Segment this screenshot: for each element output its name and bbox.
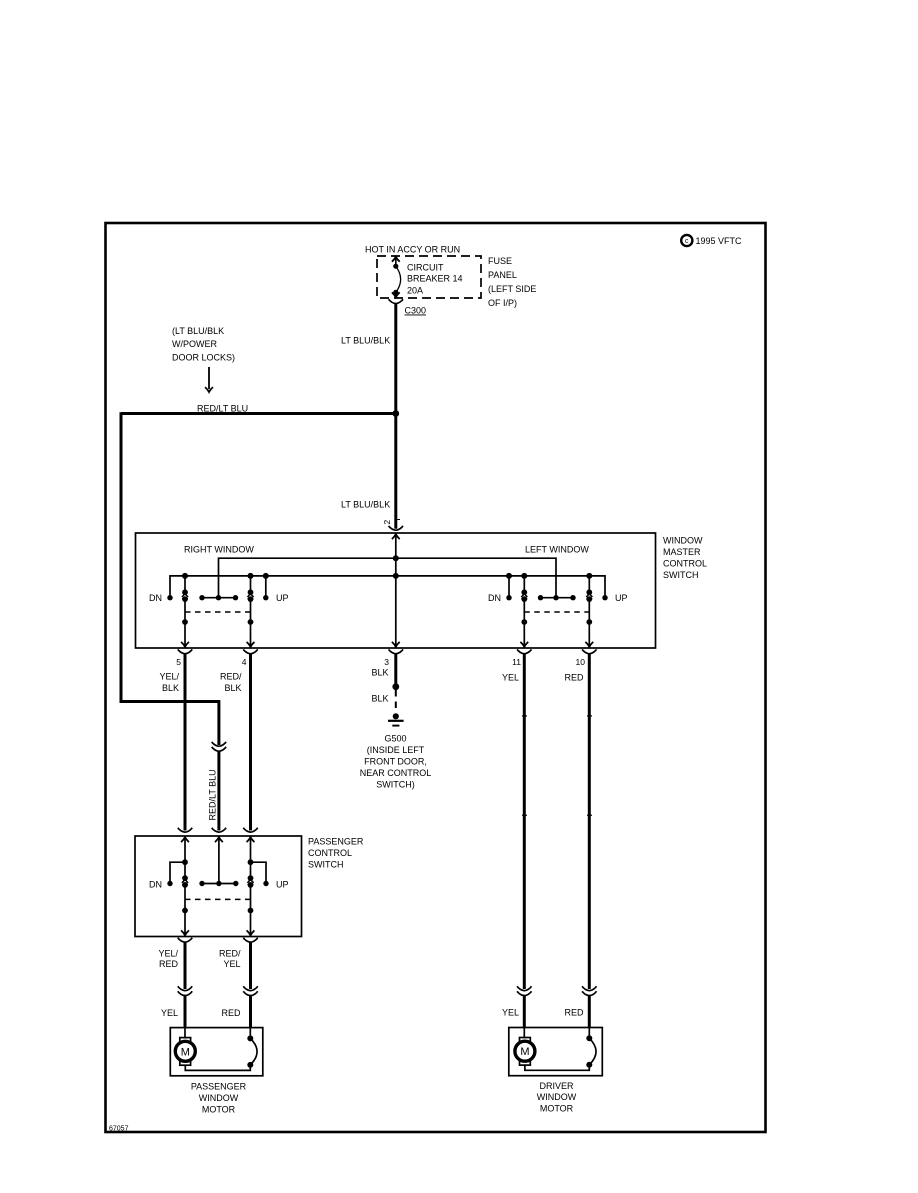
connector C300 bracket <box>389 299 403 303</box>
ground G500 <box>388 713 404 725</box>
svg-text:M: M <box>181 1046 190 1058</box>
svg-text:c: c <box>685 238 689 245</box>
wire YEL to driver motor <box>523 995 526 1028</box>
svg-text:PANEL: PANEL <box>488 270 517 280</box>
wire BLK <box>394 654 397 687</box>
svg-text:W/POWER: W/POWER <box>172 339 217 349</box>
left window UP contact <box>602 595 607 600</box>
svg-text:YEL: YEL <box>161 1008 178 1018</box>
svg-text:BLK: BLK <box>224 683 241 693</box>
svg-text:FUSE: FUSE <box>488 256 512 266</box>
svg-text:4: 4 <box>242 657 247 667</box>
svg-text:YEL: YEL <box>223 959 240 969</box>
right window wiper arm pin5 <box>181 573 189 647</box>
wire YEL driver <box>523 654 526 989</box>
svg-text:HOT IN ACCY OR RUN: HOT IN ACCY OR RUN <box>365 245 460 255</box>
entry arrows <box>181 837 189 842</box>
svg-text:67057: 67057 <box>109 1126 129 1133</box>
inline connector <box>517 986 531 995</box>
svg-text:DN: DN <box>149 880 162 890</box>
svg-text:(LEFT SIDE: (LEFT SIDE <box>488 284 536 294</box>
inline connector <box>582 986 596 995</box>
svg-text:YEL: YEL <box>502 673 519 683</box>
left window DN contact <box>508 576 510 598</box>
svg-text:SWITCH: SWITCH <box>663 570 699 580</box>
svg-text:DRIVER: DRIVER <box>539 1081 574 1091</box>
wire RED/LT BLU branch <box>121 412 396 415</box>
motor brushes passenger <box>247 1028 257 1068</box>
svg-text:WINDOW: WINDOW <box>663 536 703 546</box>
svg-text:YEL/: YEL/ <box>158 949 178 959</box>
connector bracket pin 2 <box>389 526 403 530</box>
svg-text:RED: RED <box>564 673 584 683</box>
right window wiper arm pin4 <box>247 573 255 647</box>
svg-text:CIRCUIT: CIRCUIT <box>407 262 444 272</box>
master feed exit arrow pin3 <box>392 642 400 647</box>
svg-text:20A: 20A <box>407 286 423 296</box>
right window mechanical link <box>185 611 251 613</box>
pin 3 <box>389 649 403 653</box>
svg-text:BLK: BLK <box>371 668 388 678</box>
svg-text:MASTER: MASTER <box>663 547 701 557</box>
svg-text:DN: DN <box>149 593 162 603</box>
wire BLK dashed <box>395 690 397 713</box>
page frame <box>106 223 766 1132</box>
svg-text:5: 5 <box>176 657 181 667</box>
circuit breaker 14 20A <box>392 257 401 298</box>
svg-text:NEAR CONTROL: NEAR CONTROL <box>360 768 432 778</box>
node splice <box>392 683 399 690</box>
wire YEL/RED <box>184 942 187 989</box>
svg-text:DN: DN <box>488 593 501 603</box>
wire left branch down <box>121 412 219 745</box>
svg-text:M: M <box>520 1046 529 1058</box>
svg-text:10: 10 <box>576 657 586 667</box>
motor M driver <box>515 1028 589 1071</box>
svg-text:C300: C300 <box>405 306 427 316</box>
svg-text:BLK: BLK <box>162 683 179 693</box>
inline connector <box>243 986 257 995</box>
svg-text:OF I/P): OF I/P) <box>488 298 517 308</box>
svg-text:PASSENGER: PASSENGER <box>308 837 364 847</box>
wire RED/YEL <box>249 942 252 989</box>
left window wiper arm pin11 <box>520 573 528 647</box>
wire bus A <box>219 558 557 598</box>
wire RED to passenger motor <box>249 995 252 1028</box>
svg-text:11: 11 <box>512 657 521 667</box>
svg-text:RED: RED <box>221 1008 241 1018</box>
left window mechanical link <box>524 611 589 613</box>
node bus A junction <box>393 555 399 561</box>
motor M passenger <box>175 1028 250 1071</box>
svg-text:BREAKER 14: BREAKER 14 <box>407 274 463 284</box>
svg-text:PASSENGER: PASSENGER <box>191 1082 247 1092</box>
passenger control switch box <box>135 836 302 937</box>
svg-text:RED/: RED/ <box>219 949 241 959</box>
wire RED to driver motor <box>588 995 591 1028</box>
inline connector <box>178 986 192 995</box>
svg-text:YEL/: YEL/ <box>159 672 179 682</box>
right window DN contact <box>167 595 172 600</box>
svg-text:UP: UP <box>276 593 289 603</box>
svg-text:MOTOR: MOTOR <box>540 1104 574 1114</box>
pin 10 <box>582 649 596 653</box>
passenger feed vertical <box>218 837 220 883</box>
wire trunk LT BLU/BLK <box>394 304 397 529</box>
svg-text:G500: G500 <box>384 734 406 744</box>
wire YEL to passenger motor <box>184 995 187 1028</box>
window master control switch box <box>136 533 656 648</box>
left window wiper arm pin10 <box>585 573 593 647</box>
wire RED/BLK <box>249 654 252 831</box>
inline connector <box>212 742 226 751</box>
pin 2 entry arrow <box>392 534 400 539</box>
svg-text:SWITCH: SWITCH <box>308 860 344 870</box>
passenger wiper arm left <box>181 837 189 935</box>
svg-text:1995 VFTC: 1995 VFTC <box>696 236 743 246</box>
right window UP contact <box>265 576 267 598</box>
wire YEL/BLK <box>184 654 187 831</box>
svg-text:FRONT DOOR,: FRONT DOOR, <box>364 757 427 767</box>
svg-text:RED: RED <box>564 1008 584 1018</box>
pin 5 <box>178 649 192 653</box>
svg-text:2: 2 <box>382 520 392 525</box>
copyright logo <box>681 235 692 246</box>
svg-text:YEL: YEL <box>502 1008 519 1018</box>
svg-text:WINDOW: WINDOW <box>199 1093 239 1103</box>
pin 11 <box>517 649 531 653</box>
svg-text:CONTROL: CONTROL <box>663 559 707 569</box>
svg-text:LT BLU/BLK: LT BLU/BLK <box>341 336 390 346</box>
svg-text:UP: UP <box>615 593 628 603</box>
passenger DN contact <box>170 862 185 883</box>
svg-text:MOTOR: MOTOR <box>202 1105 236 1115</box>
svg-text:(LT BLU/BLK: (LT BLU/BLK <box>172 326 224 336</box>
svg-text:DOOR LOCKS): DOOR LOCKS) <box>172 353 235 363</box>
svg-text:RED/: RED/ <box>220 672 242 682</box>
svg-text:UP: UP <box>276 880 289 890</box>
wire master feed vertical <box>395 534 397 647</box>
node junction <box>392 410 399 417</box>
passenger UP contact <box>251 862 267 883</box>
wire RED driver <box>588 654 591 989</box>
svg-text:WINDOW: WINDOW <box>537 1092 577 1102</box>
right window common contacts <box>202 597 236 599</box>
left window common contacts <box>541 597 574 599</box>
passenger window motor box <box>170 1028 262 1076</box>
driver window motor box <box>509 1028 603 1076</box>
svg-text:CONTROL: CONTROL <box>308 848 352 858</box>
note arrow <box>208 367 210 389</box>
svg-text:RED/LT BLU: RED/LT BLU <box>208 769 218 820</box>
svg-text:SWITCH): SWITCH) <box>376 780 415 790</box>
svg-text:LT BLU/BLK: LT BLU/BLK <box>341 500 390 510</box>
passenger common contacts <box>202 883 236 885</box>
wire RED/LT BLU to passenger switch <box>217 751 220 831</box>
motor brushes driver <box>586 1028 596 1068</box>
svg-text:3: 3 <box>384 657 389 667</box>
passenger wiper arm right <box>247 837 255 935</box>
connector brackets into passenger switch <box>178 828 192 832</box>
passenger mechanical link <box>185 898 251 900</box>
svg-text:RED: RED <box>159 959 179 969</box>
wire bus B <box>170 576 605 598</box>
wire tick marks driver wires <box>522 715 527 717</box>
svg-text:BLK: BLK <box>371 694 388 704</box>
passenger pin exits <box>178 938 192 942</box>
svg-text:LEFT WINDOW: LEFT WINDOW <box>525 545 589 555</box>
svg-text:RIGHT WINDOW: RIGHT WINDOW <box>184 545 254 555</box>
pin 4 <box>243 649 257 653</box>
fuse panel dashed box <box>377 256 481 298</box>
svg-text:(INSIDE LEFT: (INSIDE LEFT <box>367 745 425 755</box>
node bus B junction <box>393 573 399 579</box>
